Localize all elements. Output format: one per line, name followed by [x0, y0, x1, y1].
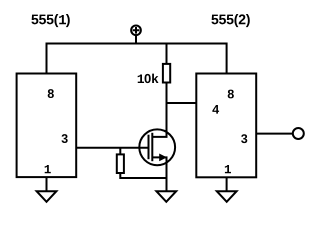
wire R1 bottom to node A [166, 83, 168, 104]
U1 pin 8 label [48, 89, 54, 98]
IC U1 555(1) box [17, 74, 77, 178]
wire gate node down to resistor R2 [119, 148, 121, 155]
transistor Q1 source arrowhead [159, 154, 167, 162]
ground GND1 (under U1) stem [46, 177, 48, 191]
power supply V1 plus sign [133, 27, 140, 34]
wire R2 bottom to source node [120, 173, 166, 178]
wire Vcc rail to resistor R1 top [166, 44, 168, 65]
ground GND3 triangle [217, 191, 237, 202]
output terminal circle [293, 128, 304, 139]
transistor Q1 source lead with arrow [152, 157, 166, 191]
U1 pin 3 label [61, 134, 67, 143]
wire U2 pin 3 to output terminal [256, 133, 293, 135]
wire node A down to Q1 drain [152, 103, 166, 137]
wire U1 pin 3 to Q1 gate [76, 147, 149, 149]
ground GND2 (under Q1) triangle [156, 191, 176, 202]
transistor Q1 envelope circle [139, 129, 175, 165]
wire Vcc rail (U1 pin8 up, across top, down to U2 pin8) [47, 44, 227, 74]
transistor Q1 gate bar [148, 135, 150, 160]
transistor Q1 channel bar [151, 133, 153, 161]
power supply V1 circle [131, 25, 141, 35]
ground GND1 triangle [37, 191, 57, 202]
resistor R1 10k body [163, 64, 170, 83]
power supply V1 stem [135, 35, 137, 43]
U2 pin 4 label [212, 105, 219, 114]
U2 pin 8 label [228, 90, 234, 99]
label 10k [138, 74, 159, 84]
label 555(2) [211, 14, 249, 27]
U1 pin 1 label [45, 165, 51, 173]
resistor R2 body [117, 154, 124, 173]
IC U2 555(2) box [196, 74, 256, 178]
label 555(1) [31, 14, 69, 27]
ground GND3 (under U2) stem [226, 177, 228, 191]
U2 pin 3 label [241, 134, 247, 143]
wire node A to U2 pin 4 [167, 102, 197, 104]
U2 pin 1 label [225, 165, 231, 173]
